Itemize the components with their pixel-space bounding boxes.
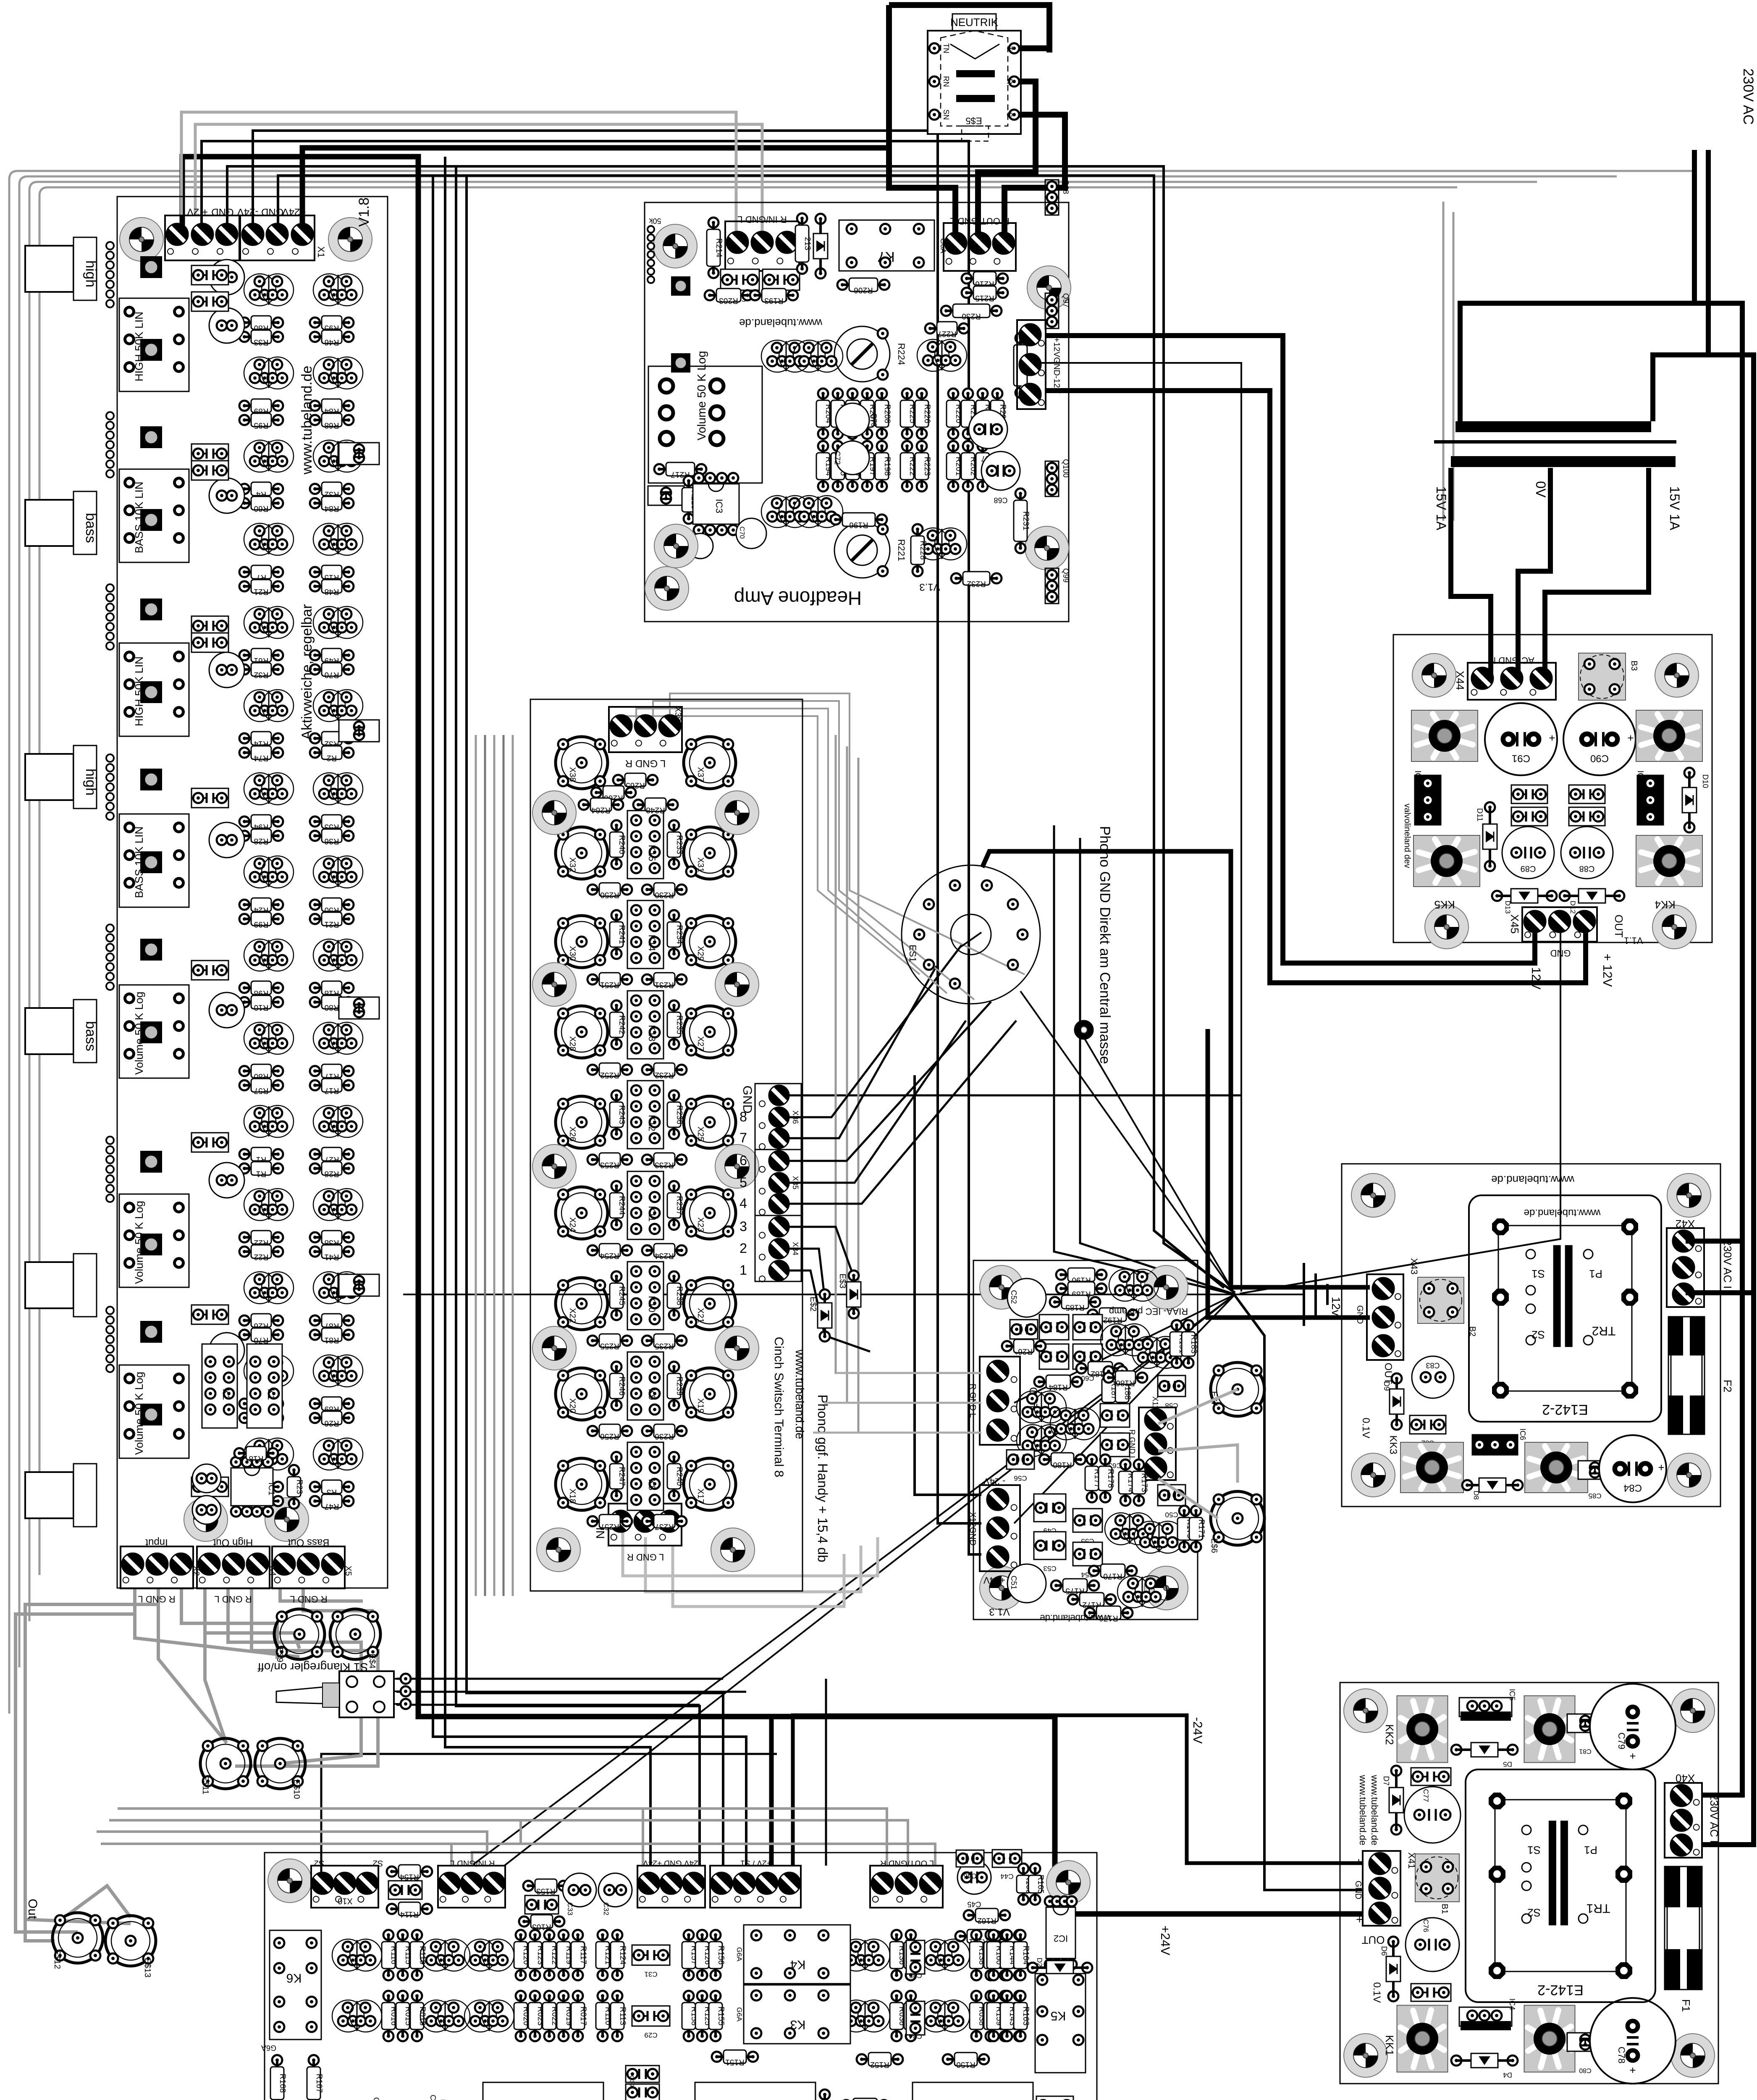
svg-text:X19: X19 (696, 1398, 705, 1413)
svg-text:R IN/GND L: R IN/GND L (450, 1858, 495, 1868)
svg-text:R GND L: R GND L (968, 1383, 977, 1417)
svg-text:R28: R28 (325, 1169, 339, 1178)
svg-text:R150: R150 (956, 2060, 975, 2069)
svg-text:R165: R165 (1036, 1874, 1045, 1893)
svg-text:R74: R74 (254, 753, 268, 762)
svg-text:230V AC: 230V AC (1740, 68, 1756, 125)
svg-text:HIGH 50K LIN: HIGH 50K LIN (133, 312, 145, 381)
svg-text:- 24V: - 24V (983, 1476, 1005, 1487)
svg-text:R237: R237 (655, 1522, 674, 1531)
svg-text:R: R (1005, 79, 1014, 84)
svg-text:R155: R155 (716, 2006, 725, 2025)
svg-text:R231: R231 (655, 980, 674, 989)
svg-text:X25: X25 (696, 1126, 705, 1142)
svg-text:R230: R230 (962, 312, 981, 320)
svg-text:C34: C34 (909, 2032, 922, 2040)
svg-text:K9: K9 (647, 1389, 657, 1400)
svg-text:C70: C70 (738, 526, 745, 538)
svg-text:Phono ggf. Handy + 15,4 db: Phono ggf. Handy + 15,4 db (815, 1394, 830, 1562)
svg-text:S2: S2 (314, 1858, 324, 1868)
svg-text:AC GND N: AC GND N (1489, 655, 1534, 666)
svg-text:C31: C31 (644, 1970, 657, 1978)
svg-text:E$3: E$3 (838, 1273, 847, 1289)
svg-text:R168: R168 (278, 2074, 287, 2092)
svg-text:R21: R21 (254, 587, 269, 596)
svg-text:R250: R250 (600, 890, 619, 899)
svg-text:X43: X43 (1409, 1258, 1419, 1274)
svg-text:+: + (1627, 732, 1634, 744)
svg-text:R GND L: R GND L (138, 1594, 175, 1604)
svg-text:1: 1 (740, 1263, 747, 1278)
svg-text:K15: K15 (647, 845, 657, 861)
svg-text:C46: C46 (963, 1872, 976, 1880)
svg-text:L GND R: L GND R (625, 758, 666, 769)
svg-text:R162: R162 (977, 1916, 996, 1925)
svg-text:X2: X2 (191, 1566, 201, 1576)
svg-text:V1.3: V1.3 (989, 1606, 1010, 1617)
svg-text:E$9: E$9 (275, 1647, 284, 1662)
svg-text:R60: R60 (254, 504, 269, 513)
svg-text:E$13: E$13 (143, 1958, 152, 1978)
svg-text:www.tubeland.de: www.tubeland.de (739, 317, 823, 329)
svg-text:R163: R163 (1021, 2006, 1030, 2025)
svg-text:X17: X17 (696, 1488, 705, 1504)
svg-text:www.tubeland.de: www.tubeland.de (299, 366, 315, 475)
svg-text:R46: R46 (325, 338, 339, 346)
svg-text:K10: K10 (647, 1296, 657, 1312)
svg-text:C79: C79 (1616, 1732, 1627, 1749)
svg-text:B2: B2 (1468, 1326, 1477, 1336)
svg-text:Headfone Amp: Headfone Amp (734, 587, 862, 609)
svg-text:R017: R017 (579, 2006, 587, 2025)
svg-text:IC5: IC5 (1508, 1689, 1516, 1701)
svg-text:X40: X40 (1676, 1772, 1695, 1785)
svg-text:www.tubeland.de: www.tubeland.de (793, 1349, 806, 1439)
svg-text:R68: R68 (325, 421, 339, 430)
svg-text:C33: C33 (566, 1902, 574, 1915)
svg-text:R57: R57 (254, 1086, 269, 1095)
svg-text:C50: C50 (1165, 1511, 1178, 1519)
svg-text:www.tubeland.de: www.tubeland.de (1491, 1173, 1575, 1186)
svg-text:C73: C73 (870, 413, 878, 427)
svg-text:RIAA- IEC pre amp: RIAA- IEC pre amp (1109, 1306, 1188, 1317)
svg-text:IC3: IC3 (714, 499, 724, 513)
svg-text:R193: R193 (764, 296, 783, 305)
svg-text:K8: K8 (647, 1479, 657, 1491)
svg-text:50k: 50k (648, 217, 661, 225)
svg-text:R230: R230 (655, 890, 674, 899)
svg-text:R226: R226 (923, 404, 931, 423)
svg-text:R153: R153 (536, 1887, 555, 1895)
svg-text:KK3: KK3 (1387, 1435, 1399, 1454)
svg-text:R221: R221 (896, 539, 907, 562)
svg-text:D10: D10 (1701, 774, 1710, 788)
svg-text:G6A: G6A (261, 2044, 276, 2052)
svg-text:high: high (83, 260, 99, 287)
svg-text:KK1: KK1 (1383, 2035, 1396, 2055)
svg-text:www.tubeland.de: www.tubeland.de (1040, 1613, 1111, 1623)
svg-text:R231: R231 (1021, 511, 1030, 530)
svg-text:R253: R253 (600, 1160, 619, 1169)
svg-text:E$5: E$5 (965, 115, 982, 126)
svg-text:R245: R245 (617, 1286, 626, 1305)
svg-text:R234: R234 (675, 925, 684, 944)
svg-text:R80: R80 (325, 1003, 339, 1012)
svg-text:K1: K1 (266, 1389, 276, 1400)
svg-text:E$2: E$2 (808, 1297, 818, 1312)
svg-text:R232: R232 (967, 579, 986, 588)
svg-text:X37: X37 (696, 767, 705, 782)
svg-text:High Out: High Out (213, 1537, 253, 1548)
svg-text:X32: X32 (568, 857, 577, 872)
svg-text:R28: R28 (254, 837, 269, 845)
svg-text:IC8: IC8 (1413, 770, 1422, 783)
svg-text:R178: R178 (1106, 1469, 1115, 1488)
svg-text:R151: R151 (725, 2058, 744, 2066)
svg-text:GND -24V: GND -24V (237, 206, 284, 218)
svg-text:R36: R36 (325, 837, 339, 845)
svg-text:Out: Out (26, 1899, 39, 1919)
svg-text:F2: F2 (1721, 1380, 1734, 1392)
svg-text:B1: B1 (1440, 1904, 1449, 1914)
svg-text:R224: R224 (896, 343, 907, 365)
svg-text:C84: C84 (1623, 1482, 1642, 1494)
svg-text:X34: X34 (791, 1242, 800, 1255)
svg-text:- 12V: - 12V (1529, 959, 1543, 990)
svg-text:C29: C29 (644, 2031, 657, 2039)
svg-text:C32: C32 (602, 1902, 610, 1915)
svg-text:X23: X23 (696, 1217, 705, 1232)
svg-text:C68: C68 (994, 496, 1007, 504)
svg-text:Volume 50 K Log: Volume 50 K Log (133, 992, 145, 1075)
svg-text:www.tubeland.de: www.tubeland.de (1358, 1774, 1368, 1845)
svg-text:-24V: -24V (1191, 1717, 1204, 1743)
svg-text:R173: R173 (1140, 1473, 1149, 1492)
svg-text:R232: R232 (655, 1071, 674, 1079)
svg-text:5: 5 (740, 1175, 747, 1190)
svg-text:X10: X10 (338, 1896, 353, 1906)
svg-text:X27: X27 (696, 1036, 705, 1051)
svg-text:L OUT/GND R: L OUT/GND R (880, 1858, 934, 1868)
svg-text:X36: X36 (791, 1110, 800, 1124)
svg-text:X24: X24 (568, 1217, 577, 1232)
svg-text:KK2: KK2 (1383, 1724, 1396, 1745)
svg-text:R167: R167 (315, 2074, 323, 2092)
svg-text:KK5: KK5 (1434, 898, 1455, 911)
svg-text:R184: R184 (1049, 1383, 1068, 1391)
svg-text:+: + (1549, 732, 1555, 744)
svg-text:C56: C56 (1014, 1474, 1027, 1482)
svg-text:R95: R95 (254, 421, 269, 430)
svg-text:GND: GND (211, 206, 233, 218)
svg-text:R239: R239 (675, 1376, 684, 1395)
svg-text:E$6: E$6 (1209, 1538, 1219, 1553)
svg-text:R257: R257 (600, 1522, 619, 1531)
svg-text:C80: C80 (1579, 2067, 1591, 2074)
svg-text:X44: X44 (1454, 671, 1466, 690)
svg-text:S: S (1005, 112, 1014, 117)
svg-text:F1: F1 (1680, 1999, 1692, 2012)
svg-text:R2: R2 (327, 753, 337, 762)
svg-text:TR2: TR2 (1592, 1324, 1616, 1338)
svg-text:IC6: IC6 (1518, 1428, 1527, 1440)
svg-text:R180: R180 (1053, 1460, 1072, 1469)
svg-text:R240: R240 (675, 1467, 684, 1486)
svg-text:230V AC I: 230V AC I (1721, 1239, 1734, 1289)
svg-text:R113: R113 (618, 2007, 627, 2025)
svg-text:X42: X42 (1676, 1218, 1695, 1230)
svg-text:Phono GND Direkt am Central ma: Phono GND Direkt am Central masse (1097, 826, 1113, 1064)
svg-text:Aktivweiche, regelbar: Aktivweiche, regelbar (299, 604, 315, 740)
svg-text:Q99: Q99 (1062, 568, 1070, 583)
svg-text:RN: RN (942, 76, 950, 87)
svg-text:Q97: Q97 (1062, 293, 1070, 307)
svg-text:R196: R196 (849, 520, 868, 529)
svg-text:R237: R237 (675, 1196, 684, 1215)
svg-text:R206: R206 (854, 286, 873, 294)
svg-text:R81: R81 (325, 1336, 339, 1344)
svg-text:C83: C83 (1426, 1361, 1440, 1370)
svg-text:S1 Klangregler on/off: S1 Klangregler on/off (258, 1661, 368, 1674)
svg-text:R47: R47 (325, 1502, 339, 1511)
svg-text:R32: R32 (254, 670, 269, 679)
svg-text:R238: R238 (675, 1286, 684, 1305)
svg-text:R170: R170 (1103, 1572, 1122, 1580)
svg-text:K12: K12 (647, 1115, 657, 1131)
svg-text:0V: 0V (1533, 481, 1548, 498)
svg-text:E$12: E$12 (52, 1950, 62, 1969)
svg-text:X45: X45 (1508, 914, 1521, 934)
svg-text:C88: C88 (1579, 864, 1595, 873)
svg-text:S2: S2 (1531, 1328, 1545, 1341)
svg-text:X28: X28 (568, 1036, 577, 1051)
svg-text:+24V: +24V (282, 206, 306, 218)
svg-text:G6A: G6A (735, 2007, 743, 2022)
svg-text:IC1: IC1 (267, 1482, 276, 1495)
svg-text:high: high (83, 769, 99, 795)
svg-text:R183: R183 (1189, 1334, 1198, 1353)
svg-text:C51: C51 (1010, 1575, 1018, 1589)
svg-text:C44: C44 (1000, 1872, 1013, 1880)
svg-text:X5: X5 (344, 1566, 353, 1576)
svg-text:S1: S1 (1531, 1268, 1545, 1280)
svg-text:R234: R234 (655, 1251, 674, 1260)
svg-text:X4: X4 (268, 1566, 277, 1576)
svg-text:R236: R236 (655, 1432, 674, 1441)
svg-text:R241: R241 (617, 925, 626, 944)
svg-text:D13: D13 (1504, 900, 1512, 913)
svg-text:R GND L: R GND L (214, 1594, 252, 1604)
svg-text:K2: K2 (221, 1389, 231, 1400)
svg-text:R10: R10 (254, 1003, 269, 1012)
svg-text:P1: P1 (1584, 1844, 1597, 1856)
svg-text:G6A: G6A (735, 1947, 743, 1962)
svg-text:2: 2 (740, 1241, 747, 1256)
svg-text:Cinch Switsch Terminal 8: Cinch Switsch Terminal 8 (772, 1337, 786, 1478)
svg-text:Volume 50 K Log: Volume 50 K Log (133, 1372, 145, 1455)
svg-text:NEUTRIK: NEUTRIK (950, 16, 999, 29)
svg-text:C76: C76 (1422, 1919, 1430, 1932)
svg-text:R48: R48 (325, 587, 339, 596)
svg-text:R22: R22 (254, 1252, 269, 1261)
svg-text:BASS 10K LIN: BASS 10K LIN (133, 482, 145, 554)
svg-text:R171: R171 (1197, 1519, 1206, 1538)
svg-text:S2: S2 (373, 1858, 383, 1868)
svg-text:C47: C47 (429, 2095, 437, 2100)
svg-text:C53: C53 (1043, 1564, 1056, 1572)
svg-text:GND: GND (1550, 948, 1571, 958)
svg-text:R246: R246 (617, 1376, 626, 1395)
svg-text:R248: R248 (646, 806, 665, 814)
svg-text:R124: R124 (618, 1945, 627, 1965)
svg-text:R244: R244 (617, 1196, 626, 1215)
svg-text:X22: X22 (568, 1308, 577, 1323)
svg-text:R33: R33 (254, 338, 269, 346)
svg-text:Volume 50 K Log: Volume 50 K Log (133, 1201, 145, 1284)
svg-text:Input: Input (145, 1537, 168, 1548)
svg-text:R17: R17 (325, 1086, 339, 1095)
svg-text:C89: C89 (1521, 864, 1536, 873)
svg-text:L GND R: L GND R (627, 1552, 664, 1562)
svg-text:+2V / S1: +2V / S1 (740, 1858, 771, 1867)
svg-text:X30: X30 (568, 946, 577, 961)
svg-text:X12GND: X12GND (968, 1512, 977, 1546)
svg-text:+: + (1353, 1916, 1366, 1923)
svg-text:C78: C78 (1616, 2047, 1627, 2063)
svg-text:D11: D11 (1476, 808, 1484, 822)
svg-text:valvolineland dev: valvolineland dev (1403, 803, 1412, 868)
svg-text:K5: K5 (1051, 2009, 1066, 2023)
svg-text:0.1V: 0.1V (1360, 1417, 1372, 1438)
svg-text:X29: X29 (696, 946, 705, 961)
svg-text:R156: R156 (716, 1945, 725, 1964)
svg-text:R223: R223 (923, 457, 931, 475)
svg-text:K13: K13 (647, 1025, 657, 1041)
svg-text:P1: P1 (1589, 1268, 1602, 1280)
svg-text:V1.3: V1.3 (919, 581, 940, 593)
svg-text:C48: C48 (372, 2097, 380, 2100)
svg-text:R1: R1 (256, 1169, 266, 1178)
svg-text:R256: R256 (600, 1432, 619, 1441)
svg-text:R117: R117 (579, 1946, 587, 1964)
svg-text:KK4: KK4 (1655, 898, 1675, 911)
svg-text:X39: X39 (673, 706, 682, 722)
svg-text:X38: X38 (568, 767, 577, 782)
svg-text:IC4: IC4 (1508, 1998, 1516, 2010)
svg-text:0.1V: 0.1V (1371, 1982, 1382, 2003)
svg-text:ES1: ES1 (907, 945, 918, 962)
svg-text:R235: R235 (655, 1341, 674, 1350)
svg-text:R254: R254 (600, 1251, 619, 1260)
svg-text:15V 1A: 15V 1A (1434, 486, 1449, 531)
svg-text:X21: X21 (696, 1308, 705, 1323)
svg-text:+24V: +24V (983, 1575, 1005, 1585)
svg-text:TN: TN (942, 43, 950, 53)
svg-text:X18: X18 (568, 1488, 577, 1504)
svg-text:R242: R242 (617, 1015, 626, 1034)
svg-text:R21: R21 (325, 920, 339, 929)
svg-text:IC7: IC7 (1636, 770, 1645, 783)
svg-text:X31: X31 (696, 857, 705, 872)
svg-text:C58: C58 (1165, 1402, 1178, 1410)
svg-text:R26*: R26* (1015, 1347, 1033, 1356)
svg-text:GND: GND (1355, 1305, 1364, 1324)
svg-text:R154: R154 (400, 1872, 419, 1881)
svg-text:OUT: OUT (1361, 1934, 1385, 1946)
svg-text:R235: R235 (675, 1015, 684, 1034)
svg-text:4: 4 (740, 1196, 747, 1211)
svg-text:R18: R18 (249, 1454, 264, 1463)
svg-text:www.tubeland.de: www.tubeland.de (1369, 1774, 1380, 1845)
svg-text:S1: S1 (1527, 1844, 1541, 1856)
svg-text:+ 12V: + 12V (1600, 953, 1614, 987)
svg-text:X35: X35 (791, 1176, 800, 1189)
svg-text:R114: R114 (400, 1910, 419, 1919)
svg-text:R185: R185 (1065, 1303, 1084, 1312)
svg-text:+ 2V: + 2V (187, 206, 208, 218)
svg-text:TR1: TR1 (1587, 1901, 1610, 1915)
svg-text:D6: D6 (1380, 1946, 1388, 1956)
svg-text:R70: R70 (254, 1336, 269, 1344)
svg-text:+: + (1629, 1750, 1636, 1762)
svg-text:C35: C35 (909, 1971, 922, 1979)
svg-text:V1.1: V1.1 (1624, 935, 1643, 946)
svg-text:bass: bass (83, 1021, 99, 1051)
svg-text:D8: D8 (1472, 1491, 1480, 1500)
svg-text:R84: R84 (324, 504, 339, 513)
svg-text:-24V GND +24V: -24V GND +24V (643, 1858, 701, 1867)
svg-text:S2: S2 (1527, 1906, 1541, 1919)
svg-text:E$4: E$4 (367, 1654, 377, 1669)
svg-text:R252: R252 (600, 1071, 619, 1079)
svg-text:C91: C91 (1512, 753, 1530, 764)
svg-text:R IN/GND L: R IN/GND L (737, 214, 787, 225)
svg-text:R264: R264 (591, 806, 611, 814)
svg-text:R214: R214 (714, 238, 723, 257)
svg-text:X11: X11 (1151, 1396, 1159, 1410)
svg-text:R198: R198 (883, 457, 892, 475)
svg-text:Q100: Q100 (1062, 459, 1070, 478)
svg-text:+: + (1629, 2064, 1636, 2076)
svg-text:R23: R23 (295, 1480, 304, 1494)
svg-text:R233: R233 (675, 835, 684, 854)
svg-text:R215: R215 (975, 294, 994, 302)
svg-text:C52: C52 (1010, 1290, 1018, 1304)
svg-text:R99: R99 (254, 920, 269, 929)
svg-text:C90: C90 (1590, 753, 1609, 764)
svg-text:3: 3 (740, 1219, 747, 1234)
svg-text:Volume 50 K Log: Volume 50 K Log (695, 351, 708, 440)
svg-text:R OUT/GND L: R OUT/GND L (950, 216, 1010, 226)
svg-text:R152: R152 (870, 2060, 889, 2069)
svg-text:GND: GND (1353, 1881, 1363, 1899)
svg-text:+: + (1658, 1461, 1664, 1474)
svg-text:8: 8 (740, 1109, 747, 1124)
svg-text:D7: D7 (1382, 1776, 1390, 1785)
svg-text:R236: R236 (675, 1105, 684, 1124)
svg-text:C81: C81 (1579, 1748, 1591, 1755)
svg-text:C72: C72 (833, 451, 842, 465)
svg-text:R255: R255 (600, 1341, 619, 1350)
svg-text:R26: R26 (325, 1419, 339, 1428)
svg-text:V1.8: V1.8 (356, 197, 372, 227)
svg-text:R251: R251 (600, 980, 619, 989)
svg-text:D9: D9 (1382, 1381, 1391, 1391)
svg-text:E$10: E$10 (292, 1780, 301, 1799)
svg-text:R233: R233 (655, 1160, 674, 1169)
svg-text:R164: R164 (1021, 1945, 1030, 1965)
svg-text:R228: R228 (918, 541, 927, 559)
